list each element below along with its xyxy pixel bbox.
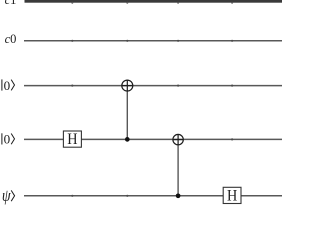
svg-text:c1: c1 — [5, 0, 17, 7]
label |psi> for wire q3 (bar cropped at left) — [11, 190, 14, 201]
wire c0 — [24, 40, 282, 42]
CNOT2 control dot on q3 — [176, 193, 181, 198]
tick q3 col1 — [71, 195, 73, 197]
svg-text:0: 0 — [4, 133, 11, 147]
tick q1 col1 — [71, 85, 73, 87]
wire c1 (thick dark classical line, cropped) — [25, 0, 283, 3]
wire q2 — [24, 138, 282, 140]
gate H (wire q3, column 4) — [223, 187, 241, 204]
tick q1 col3 — [177, 85, 179, 87]
tick c0 col4 — [231, 40, 233, 42]
svg-text:c0: c0 — [5, 32, 17, 46]
CNOT1 control dot on q2 — [125, 137, 130, 142]
tick c0 col1 — [71, 40, 73, 42]
label |0> for wire q1 — [2, 79, 15, 90]
tick c0 col3 — [177, 40, 179, 42]
tick c0 col2 — [126, 40, 128, 42]
tick c1 col4 — [231, 2, 233, 4]
svg-text:H: H — [67, 132, 78, 149]
wire: CNOT2 vertical connector (q2 target to q3 control) — [177, 145, 179, 196]
tick q1 col4 — [231, 85, 233, 87]
tick q3 col2 — [126, 195, 128, 197]
wire: CNOT1 vertical connector (q1 target to q2 control) — [126, 91, 128, 140]
svg-text:0: 0 — [4, 79, 11, 93]
gate H (wire q2, column 1) — [63, 131, 81, 148]
CNOT2 target on q2 — [173, 134, 183, 144]
wire q3 — [24, 195, 282, 197]
tick c1 col1 — [71, 2, 73, 4]
label |0> for wire q2 — [2, 133, 15, 144]
tick c1 col2 — [126, 2, 128, 4]
tick q2 col4 — [231, 138, 233, 140]
quantum circuit schematic 282x206 — [0, 0, 282, 206]
wire q1 — [24, 85, 282, 87]
tick c1 col3 — [177, 2, 179, 4]
svg-text:ψ: ψ — [2, 187, 11, 205]
svg-text:H: H — [227, 188, 238, 205]
CNOT1 target on q1 — [122, 80, 133, 91]
